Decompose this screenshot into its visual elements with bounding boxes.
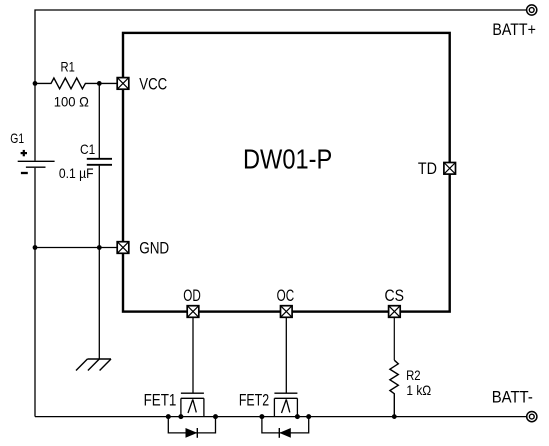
- resistor R1: [35, 78, 117, 89]
- svg-text:1 kΩ: 1 kΩ: [406, 383, 431, 398]
- diode body FET2: [262, 417, 309, 438]
- ground chassis symbol: [76, 359, 111, 371]
- svg-text:OC: OC: [277, 287, 295, 305]
- svg-text:0.1 µF: 0.1 µF: [59, 166, 94, 181]
- svg-text:CS: CS: [384, 287, 404, 305]
- node FET2 drain: [295, 414, 300, 419]
- svg-text:GND: GND: [139, 239, 169, 257]
- node junction R2-rail: [392, 414, 397, 419]
- pin TD: [444, 163, 456, 175]
- wire ground stem: [98, 248, 100, 360]
- IC U1 DW01-P body: [123, 33, 450, 312]
- wire GND rail: [35, 247, 117, 249]
- node FET2 diode right: [306, 414, 311, 419]
- transistor FET1: [181, 393, 204, 416]
- node FET2 diode left: [259, 414, 264, 419]
- pin OD: [187, 306, 199, 318]
- diode body FET1: [168, 417, 215, 438]
- wire battery minus down left side: [34, 168, 36, 417]
- svg-text:100 Ω: 100 Ω: [54, 94, 89, 109]
- node junction left-GND: [33, 245, 38, 250]
- node FET1 diode right: [213, 414, 218, 419]
- battery G1: [18, 150, 55, 173]
- node junction C1-GND: [97, 245, 102, 250]
- svg-text:C1: C1: [80, 142, 95, 157]
- svg-text:BATT-: BATT-: [492, 388, 533, 406]
- wire OC to FET2 gate: [285, 317, 287, 392]
- svg-text:DW01-P: DW01-P: [243, 143, 332, 174]
- pin GND: [117, 242, 129, 254]
- pin OC: [281, 306, 293, 318]
- node junction left-R1: [33, 81, 38, 86]
- wire CS to R2: [393, 317, 395, 360]
- svg-text:R1: R1: [61, 59, 75, 74]
- svg-text:TD: TD: [418, 160, 437, 178]
- wire bottom rail BATT-: [35, 416, 527, 418]
- svg-text:R2: R2: [406, 368, 421, 383]
- node FET1 source: [178, 414, 183, 419]
- capacitor C1: [87, 83, 112, 247]
- resistor R2: [390, 360, 398, 416]
- svg-text:FET1: FET1: [144, 392, 177, 410]
- node junction R1-C1: [97, 81, 102, 86]
- node FET1 diode left: [166, 414, 171, 419]
- wire OD to FET1 gate: [192, 317, 194, 392]
- pin VCC: [117, 78, 129, 90]
- terminal BATT-: [527, 412, 537, 422]
- svg-text:VCC: VCC: [139, 76, 167, 94]
- svg-text:BATT+: BATT+: [492, 21, 536, 39]
- svg-text:FET2: FET2: [239, 392, 269, 410]
- svg-text:OD: OD: [183, 287, 201, 305]
- wire top rail BATT+: [35, 10, 527, 161]
- transistor FET2: [274, 393, 297, 416]
- pin CS: [389, 306, 401, 318]
- terminal BATT+: [527, 5, 537, 15]
- svg-text:G1: G1: [10, 131, 24, 146]
